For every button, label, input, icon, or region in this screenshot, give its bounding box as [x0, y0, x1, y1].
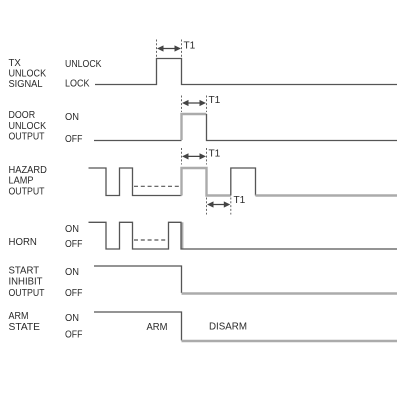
svg-text:TX: TX [9, 58, 22, 69]
svg-text:T1: T1 [184, 41, 196, 52]
svg-text:T1: T1 [234, 195, 246, 206]
svg-text:ON: ON [65, 267, 79, 278]
svg-text:HAZARD: HAZARD [9, 165, 47, 176]
svg-text:ARM: ARM [147, 322, 168, 333]
svg-text:HORN: HORN [9, 237, 37, 248]
svg-text:STATE: STATE [9, 322, 41, 333]
svg-text:LAMP: LAMP [9, 175, 34, 186]
svg-text:OUTPUT: OUTPUT [9, 186, 45, 197]
svg-text:SIGNAL: SIGNAL [9, 79, 43, 90]
svg-text:UNLOCK: UNLOCK [65, 59, 102, 70]
svg-text:T1: T1 [209, 95, 221, 106]
svg-text:DOOR: DOOR [9, 110, 36, 121]
svg-text:OFF: OFF [65, 330, 82, 341]
svg-text:OFF: OFF [65, 288, 82, 299]
svg-text:UNLOCK: UNLOCK [9, 121, 47, 132]
svg-text:OUTPUT: OUTPUT [9, 288, 45, 299]
svg-text:T1: T1 [209, 149, 221, 160]
svg-text:ARM: ARM [9, 311, 29, 322]
svg-text:OUTPUT: OUTPUT [9, 132, 45, 143]
svg-text:INHIBIT: INHIBIT [9, 277, 43, 288]
svg-text:ON: ON [65, 313, 79, 324]
svg-text:ON: ON [65, 224, 79, 235]
svg-text:UNLOCK: UNLOCK [9, 68, 47, 79]
svg-text:ON: ON [65, 112, 79, 123]
svg-text:DISARM: DISARM [209, 322, 247, 333]
svg-text:OFF: OFF [65, 239, 82, 250]
svg-text:OFF: OFF [65, 134, 82, 145]
svg-text:START: START [9, 266, 40, 277]
svg-text:LOCK: LOCK [65, 79, 90, 90]
